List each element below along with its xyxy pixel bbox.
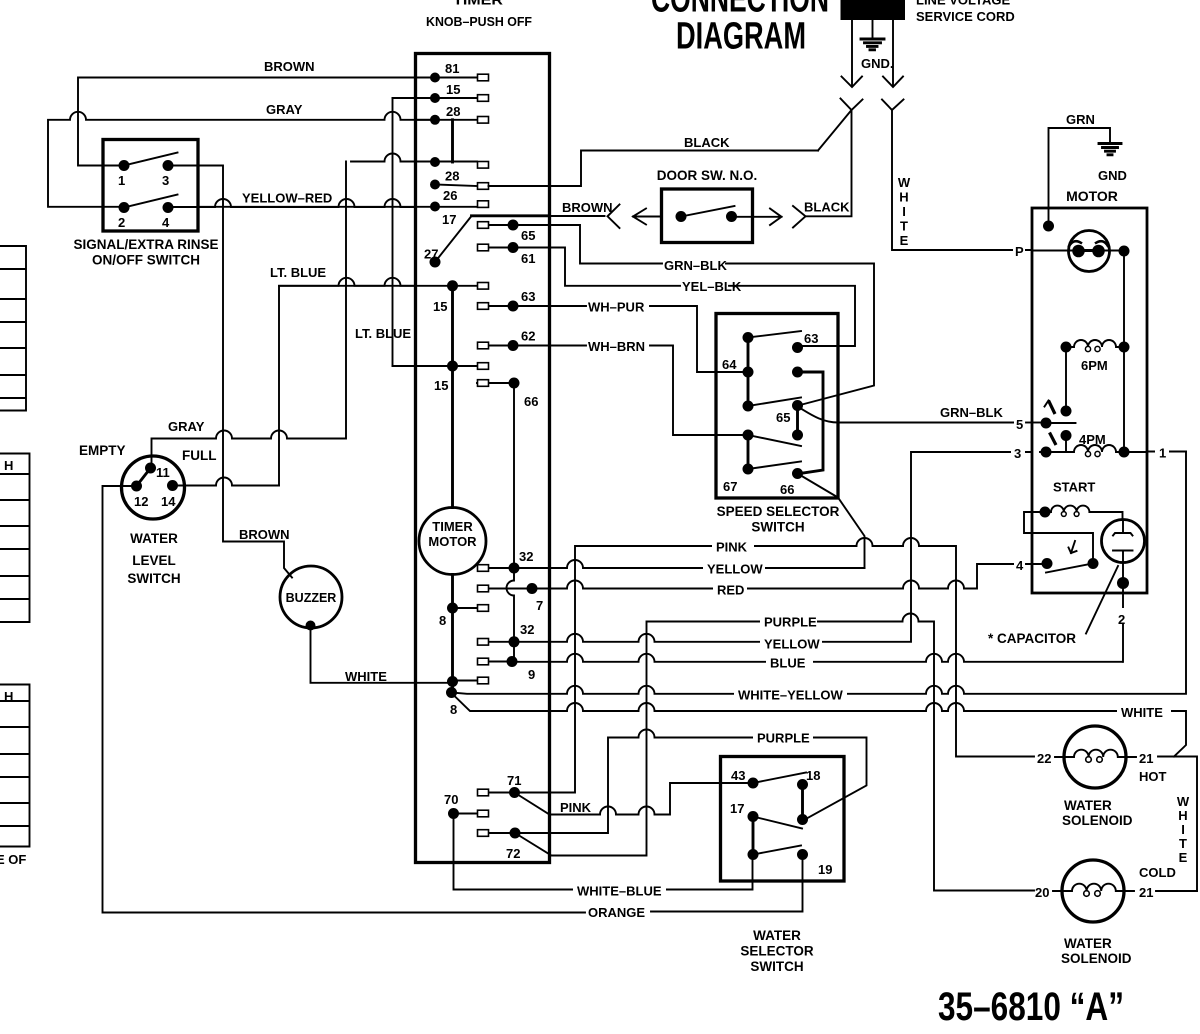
svg-text:4: 4 [162, 215, 170, 230]
svg-text:8: 8 [439, 613, 446, 628]
wire GRN-BLK into motor 5 [1026, 422, 1040, 424]
motor 4PM winding row (3) [1011, 445, 1025, 459]
svg-text:26: 26 [443, 188, 457, 203]
svg-text:15: 15 [433, 299, 447, 314]
motor ground symbol [1099, 144, 1121, 155]
svg-text:1: 1 [1159, 446, 1166, 461]
svg-text:9: 9 [528, 667, 535, 682]
legend table box 2 (clipped) [0, 454, 30, 623]
svg-text:ON/OFF SWITCH: ON/OFF SWITCH [92, 253, 200, 268]
svg-text:T: T [1179, 836, 1187, 851]
svg-text:67: 67 [723, 479, 737, 494]
disconnect chevron left [841, 99, 863, 111]
svg-text:H: H [4, 689, 13, 704]
svg-text:5: 5 [1016, 417, 1023, 432]
buzzer bottom terminal dot [306, 621, 316, 631]
service cord plug block [841, 0, 906, 20]
wire 6PM left down to centrifugal contact [1065, 347, 1067, 411]
svg-text:3: 3 [1014, 446, 1021, 461]
motor protector circle [1069, 231, 1110, 272]
wire BLACK diagonal from timer 26 line [818, 110, 852, 151]
svg-text:GRAY: GRAY [168, 419, 205, 434]
water selector blade 17 [753, 817, 802, 829]
wire PINK bottom (timer 71 diag to water selector 43) [515, 783, 749, 815]
svg-text:PINK: PINK [560, 800, 592, 815]
timer terminal 32b row [489, 641, 515, 643]
wire WL 14 to LT.BLUE riser (hops x223) [178, 478, 279, 486]
service cord line wire arrow L1 [851, 20, 853, 86]
timer terminal 32a row [489, 567, 515, 569]
water selector bus 17 [752, 817, 755, 855]
svg-text:6PM: 6PM [1081, 358, 1108, 373]
svg-text:HOT: HOT [1139, 769, 1167, 784]
wire door right with arrow out [737, 209, 782, 226]
svg-text:H: H [899, 190, 908, 205]
speed selector blade 64a-63 [748, 331, 801, 338]
wire YELLOW-RED (switch 4 to timer 17, hops x223 x346 x392) [168, 199, 415, 207]
svg-text:WH–PUR: WH–PUR [588, 300, 645, 315]
svg-text:E: E [1179, 850, 1188, 865]
svg-text:LINE VOLTAGE: LINE VOLTAGE [916, 0, 1010, 8]
timer terminal 66 [477, 382, 514, 384]
timer terminal 63 row [489, 305, 509, 307]
svg-text:YELLOW–RED: YELLOW–RED [242, 191, 332, 206]
svg-text:72: 72 [506, 846, 520, 861]
svg-text:DIAGRAM: DIAGRAM [676, 16, 806, 58]
speed selector bus 67a-67 [747, 435, 750, 469]
svg-text:TIMER: TIMER [453, 0, 503, 8]
signal switch contact 2 [119, 202, 130, 213]
timer terminal 28b row (wire hops x392) [351, 154, 477, 162]
speed selector contact 64a [743, 332, 754, 343]
svg-text:2: 2 [1118, 612, 1125, 627]
svg-text:BROWN: BROWN [239, 527, 290, 542]
svg-text:MOTOR: MOTOR [428, 534, 477, 549]
svg-text:12: 12 [134, 494, 148, 509]
svg-text:SERVICE CORD: SERVICE CORD [916, 9, 1015, 24]
timer terminal 9 row [489, 661, 513, 663]
buzzer circle [280, 566, 342, 628]
wire ORANGE (WL 12 down and right to water selector 19) [103, 486, 586, 913]
svg-text:WATER: WATER [1064, 936, 1112, 951]
signal switch blade 2-4 [124, 195, 178, 208]
timer terminal 71 row [489, 792, 511, 794]
svg-text:WATER: WATER [1064, 798, 1112, 813]
timer motor stem to 8 [451, 575, 454, 693]
svg-text:7: 7 [536, 598, 543, 613]
signal switch contact 4 [163, 202, 174, 213]
wire YELLOW2 (timer 32b to motor 3) [519, 452, 1031, 642]
speed selector contact 67 [743, 464, 754, 475]
svg-text:SWITCH: SWITCH [127, 571, 180, 586]
wire GRN-BLK (timer 65 to speed selector 65) [518, 225, 662, 264]
svg-text:BLUE: BLUE [770, 656, 806, 671]
timer bus 28 to 28b [451, 120, 454, 162]
svg-text:28: 28 [445, 169, 459, 184]
svg-text:SWITCH: SWITCH [750, 959, 803, 974]
wire BROWN (timer 81 to switch 1) [78, 78, 435, 166]
svg-text:* CAPACITOR: * CAPACITOR [988, 631, 1076, 646]
svg-text:LEVEL: LEVEL [132, 553, 176, 568]
label 2 [1116, 608, 1130, 624]
svg-text:35–6810 “A”: 35–6810 “A” [938, 985, 1124, 1029]
timer terminal 15 row [393, 97, 478, 99]
speed selector contact 64b [743, 401, 754, 412]
svg-text:GRN–BLK: GRN–BLK [940, 405, 1003, 420]
svg-text:START: START [1053, 480, 1095, 495]
wire GRAY2 (WL 11 to timer 28b riser, hops x223 x279) [152, 162, 347, 466]
wire cold 21 to riser [1156, 890, 1197, 892]
svg-text:W: W [1177, 794, 1190, 809]
water selector contact 17 [748, 811, 759, 822]
svg-text:I: I [902, 204, 906, 219]
wire RED into motor 4 [1026, 563, 1041, 565]
svg-text:TIMER: TIMER [432, 519, 473, 534]
svg-text:32: 32 [519, 549, 533, 564]
svg-text:21: 21 [1139, 751, 1153, 766]
water selector blade 43-18 [753, 773, 806, 784]
svg-text:14: 14 [161, 494, 176, 509]
svg-text:66: 66 [524, 394, 538, 409]
svg-text:GND: GND [1098, 168, 1127, 183]
legend table box 1 (clipped at left edge) [0, 246, 26, 411]
svg-text:70: 70 [444, 792, 458, 807]
water selector contact 43 [748, 778, 759, 789]
svg-text:63: 63 [521, 289, 535, 304]
svg-text:63: 63 [804, 331, 818, 346]
wire PURPLE2 (timer 72 to water selector 18) [520, 730, 867, 834]
motor junction dot P-right [1119, 246, 1130, 257]
svg-text:I: I [1181, 822, 1185, 837]
svg-text:LT. BLUE: LT. BLUE [355, 326, 411, 341]
svg-text:MOTOR: MOTOR [1066, 188, 1118, 204]
motor centrifugal switch upper (5) [1041, 418, 1052, 429]
timer terminal 15b row [393, 365, 478, 367]
speed selector contact 65 [792, 400, 803, 411]
svg-text:18: 18 [806, 768, 820, 783]
svg-text:PURPLE: PURPLE [764, 615, 817, 630]
cold water solenoid circle [1062, 860, 1124, 922]
speed selector link 64R to 66 [798, 372, 824, 474]
svg-text:T: T [900, 219, 908, 234]
svg-text:11: 11 [156, 465, 170, 480]
svg-text:E OF: E OF [0, 852, 26, 867]
wire YELLOW (timer 32a to speed selector 66) [519, 560, 865, 568]
svg-text:19: 19 [818, 862, 832, 877]
legend table box 3 (clipped) [0, 685, 30, 847]
wire GRAY (timer 28 to switch 2 riser, hops x78 and x392) [48, 112, 435, 207]
svg-text:BLACK: BLACK [804, 200, 850, 215]
door switch contact right [726, 211, 737, 222]
svg-text:E: E [900, 233, 909, 248]
svg-text:LT. BLUE: LT. BLUE [270, 265, 326, 280]
svg-text:BUZZER: BUZZER [286, 591, 337, 605]
speed selector contact 65b [792, 430, 803, 441]
svg-text:SPEED SELECTOR: SPEED SELECTOR [717, 504, 840, 519]
svg-text:8: 8 [450, 702, 457, 717]
svg-text:KNOB–PUSH OFF: KNOB–PUSH OFF [426, 14, 532, 29]
motor run capacitor circle [1102, 520, 1145, 563]
motor start bracket to contact [1024, 512, 1093, 563]
timer terminal 26 row (exits to BLACK) [435, 185, 477, 187]
hot water solenoid circle [1064, 726, 1126, 788]
svg-text:BLACK: BLACK [684, 135, 730, 150]
speed selector blade 64b-65 [748, 398, 801, 407]
timer terminal 72 row [489, 832, 516, 834]
water selector contact 19 [797, 849, 808, 860]
water selector bus 18 [801, 785, 804, 820]
wire door BROWN out of timer [472, 214, 550, 217]
motor 6PM winding [1061, 342, 1072, 353]
door switch contact left [676, 211, 687, 222]
svg-text:2: 2 [118, 215, 125, 230]
cold solenoid coil [1053, 884, 1134, 891]
svg-text:ORANGE: ORANGE [588, 905, 645, 920]
svg-text:28: 28 [446, 104, 460, 119]
svg-text:71: 71 [507, 773, 521, 788]
water selector contact 17b [748, 849, 759, 860]
arrow into door switch left [633, 209, 662, 225]
wire WHITE right (timer 8 to solenoids 21) [453, 695, 1186, 757]
speed selector contact 66 [792, 468, 803, 479]
svg-text:PINK: PINK [716, 540, 748, 555]
timer bus 66 down to 32/9 (hops 7-row) [507, 383, 514, 662]
svg-text:65: 65 [776, 410, 790, 425]
signal/extra rinse switch box [103, 140, 198, 232]
signal switch blade 1-3 [124, 153, 178, 166]
timer terminal 61 row [489, 247, 509, 249]
svg-text:64: 64 [722, 357, 737, 372]
svg-text:BROWN: BROWN [562, 200, 613, 215]
wire WH-BRN (timer 62 to speed selector 67 row) [518, 345, 586, 347]
svg-text:17: 17 [730, 801, 744, 816]
motor centrifugal switch lower (4) [1042, 558, 1053, 569]
svg-text:SIGNAL/EXTRA RINSE: SIGNAL/EXTRA RINSE [73, 237, 218, 252]
svg-text:WATER: WATER [753, 928, 801, 943]
svg-text:3: 3 [162, 173, 169, 188]
svg-text:81: 81 [445, 61, 459, 76]
timer terminal 7 row [489, 588, 528, 590]
signal switch contact 3 [163, 160, 174, 171]
svg-text:GRN–BLK: GRN–BLK [664, 258, 727, 273]
timer terminal 17 row [198, 206, 477, 208]
svg-text:GND.: GND. [861, 56, 894, 71]
svg-text:SOLENOID: SOLENOID [1062, 813, 1133, 828]
svg-text:H: H [1178, 808, 1187, 823]
timer terminal 81 row [416, 77, 478, 79]
svg-text:BROWN: BROWN [264, 59, 315, 74]
svg-text:GRN: GRN [1066, 112, 1095, 127]
svg-text:SOLENOID: SOLENOID [1061, 951, 1132, 966]
svg-text:27: 27 [424, 247, 438, 262]
wire BLUE (timer 9 to motor capacitor 2) [517, 654, 1123, 662]
svg-text:1: 1 [118, 173, 125, 188]
speed selector contact 63 [792, 342, 803, 353]
wire speed 66 to YELLOW riser [798, 474, 865, 569]
wire GRN into motor [1049, 128, 1111, 226]
timer terminal 28 row [416, 119, 478, 121]
svg-text:WHITE: WHITE [345, 669, 387, 684]
svg-text:YELLOW: YELLOW [707, 562, 763, 577]
svg-text:15: 15 [434, 378, 448, 393]
wire speed 65 to motor 5 (GRN-BLK) [800, 408, 1014, 423]
svg-text:YEL–BLK: YEL–BLK [682, 279, 742, 294]
door switch box [662, 189, 753, 243]
water selector switch box [721, 757, 845, 882]
motor contact 4PM top [1061, 430, 1072, 441]
water level switch circle [122, 456, 185, 519]
speed selector switch box [716, 314, 838, 499]
motor protector contacts [1032, 250, 1120, 252]
wire 15 riser x392 (15 row to 15b row) [392, 98, 394, 366]
timer terminal 70 [458, 813, 477, 815]
timer terminal 65 row [489, 224, 509, 226]
water selector contact 18 top [797, 779, 808, 790]
label 5 [1014, 416, 1026, 430]
wire WHITE-YELLOW (timer 8 to motor 1) [452, 452, 1187, 694]
wire PURPLE (timer 72 diag to COLD solenoid 20) [515, 614, 1034, 891]
svg-text:62: 62 [521, 329, 535, 344]
timer terminal 8a row [453, 607, 478, 609]
wire WHITE (buzzer bottom to timer 8b) [311, 629, 449, 683]
svg-text:W: W [898, 175, 911, 190]
speed selector contact 64R [792, 367, 803, 378]
water level contact 11 [145, 463, 156, 474]
disconnect chevron right [882, 100, 904, 111]
wire motor 1 out [1147, 451, 1186, 453]
svg-text:32: 32 [520, 622, 534, 637]
svg-text:GRAY: GRAY [266, 102, 303, 117]
wire WHITE service drop to motor P [892, 110, 1031, 250]
speed selector contact 64 [743, 367, 754, 378]
speed selector bus 65-65b [796, 406, 799, 436]
timer terminal 8b junction [447, 676, 458, 687]
wire 26 to BLACK (corner up) [489, 151, 819, 187]
wire WHITE-BLUE (timer 70 to water selector 17) [454, 818, 753, 890]
svg-text:SWITCH: SWITCH [751, 520, 804, 535]
label P [1013, 243, 1025, 257]
svg-text:65: 65 [521, 228, 535, 243]
motor start winding [1040, 507, 1051, 518]
svg-text:EMPTY: EMPTY [79, 443, 126, 458]
disconnect chevron door left [608, 205, 620, 229]
svg-text:FULL: FULL [182, 448, 217, 463]
timer terminal 27 with diagonal to door wire [430, 257, 441, 268]
timer terminal 15a row (LT. BLUE in) [279, 285, 477, 287]
disconnect chevron door right [793, 206, 806, 228]
wire capacitor to 2 and BLUE row [1122, 563, 1124, 662]
svg-text:WATER: WATER [130, 531, 178, 546]
wire WH-PUR (timer 63 to speed selector 64) [518, 305, 586, 307]
svg-text:COLD: COLD [1139, 865, 1176, 880]
svg-text:WHITE: WHITE [1121, 705, 1163, 720]
service cord line wire arrow L2 [892, 20, 894, 86]
svg-text:H: H [4, 458, 13, 473]
water selector contact 18b [797, 814, 808, 825]
water level contact 14 [167, 480, 178, 491]
timer bus 15a to timer motor [451, 286, 454, 508]
speed selector contact 67a [743, 430, 754, 441]
label 4 [1014, 556, 1026, 571]
timer motor circle [419, 508, 486, 575]
water selector blade 17b-19 [753, 846, 801, 855]
wire hot 21 to WHITE riser [1158, 757, 1197, 892]
speed selector bus 64a-64-64b [747, 338, 750, 407]
svg-text:RED: RED [717, 583, 744, 598]
svg-text:PURPLE: PURPLE [757, 731, 810, 746]
speed selector blade 67a [748, 435, 801, 446]
hot solenoid coil [1055, 750, 1136, 757]
svg-text:20: 20 [1035, 885, 1049, 900]
wire BROWN2 (switch 3 riser to buzzer, hops on crossing rows) [168, 166, 292, 578]
water level blade 12-11 [137, 468, 151, 486]
svg-text:21: 21 [1139, 885, 1153, 900]
svg-text:17: 17 [442, 212, 456, 227]
svg-text:61: 61 [521, 251, 535, 266]
svg-text:WHITE–YELLOW: WHITE–YELLOW [738, 688, 843, 703]
door switch blade [681, 206, 735, 217]
signal switch contact 1 [119, 160, 130, 171]
svg-text:SELECTOR: SELECTOR [740, 944, 814, 959]
wire BLACK service drop (left pin to black wire) [806, 110, 852, 216]
wire YEL-BLK (timer 61 to speed selector 63) [518, 248, 680, 286]
svg-text:66: 66 [780, 482, 794, 497]
wire protector to 6PM right [1123, 251, 1125, 452]
svg-text:YELLOW: YELLOW [764, 637, 820, 652]
water level contact 12 [131, 481, 142, 492]
svg-text:4: 4 [1016, 558, 1024, 573]
svg-text:P: P [1015, 244, 1024, 259]
motor box [1032, 208, 1147, 593]
timer box outline [416, 54, 550, 863]
svg-text:DOOR SW. N.O.: DOOR SW. N.O. [657, 168, 758, 183]
service cord ground symbol [872, 20, 874, 38]
svg-text:43: 43 [731, 768, 745, 783]
svg-text:15: 15 [446, 82, 460, 97]
wire PINK (timer 71 up-over to HOT solenoid 22) [519, 538, 1034, 793]
wire LT. BLUE (WL 14 riser to timer 15a, hops x346 x392) [279, 278, 415, 486]
svg-text:22: 22 [1037, 751, 1051, 766]
timer terminal 62 row [489, 345, 509, 347]
wire RED (timer 7 to motor 4) [537, 564, 1031, 589]
svg-text:WHITE–BLUE: WHITE–BLUE [577, 884, 662, 899]
svg-text:WH–BRN: WH–BRN [588, 339, 645, 354]
speed selector blade 67-66 [748, 462, 801, 470]
